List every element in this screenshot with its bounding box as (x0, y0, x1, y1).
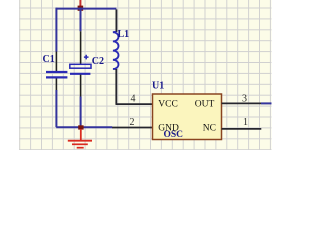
svg-text:OUT: OUT (195, 99, 215, 109)
wire: pin 3 to sheet edge (261, 102, 272, 104)
IC U1 pin 2 (112, 127, 153, 129)
capacitor C1 (46, 52, 67, 91)
svg-text:C1: C1 (43, 54, 55, 65)
IC U1 pin 3 (222, 102, 262, 104)
svg-text:OSC: OSC (164, 130, 184, 140)
wire: top horizontal net (56, 8, 116, 10)
node B junction dot (78, 125, 83, 129)
svg-text:1: 1 (243, 117, 248, 128)
wire: red stub from top edge to node A (79, 0, 81, 7)
svg-text:3: 3 (242, 94, 247, 105)
IC U1 pin 4 (116, 103, 153, 105)
wire: L1 bottom down to pin 4 (115, 69, 117, 104)
svg-text:4: 4 (131, 94, 136, 105)
wire: C2 bottom to bottom net (80, 97, 82, 128)
inductor L1 (113, 32, 119, 69)
wire: node A down to C2 (80, 8, 82, 32)
wire: left vertical from top net to C1 (55, 8, 57, 52)
svg-text:C2: C2 (92, 56, 104, 67)
IC U1 body (153, 94, 222, 140)
wire: top net corner down to L1 (115, 9, 117, 32)
svg-text:2: 2 (130, 117, 135, 128)
svg-text:L1: L1 (118, 29, 130, 40)
capacitor C2 (polarized) (70, 31, 91, 97)
wire: bottom horizontal net (56, 126, 112, 128)
svg-text:VCC: VCC (158, 99, 178, 109)
ground symbol (68, 129, 92, 148)
node A junction dot (78, 6, 84, 11)
IC U1 pin 1 (222, 128, 262, 130)
svg-text:U1: U1 (152, 81, 164, 92)
wire: C1 bottom to bottom net (55, 90, 57, 127)
svg-text:NC: NC (203, 124, 216, 134)
